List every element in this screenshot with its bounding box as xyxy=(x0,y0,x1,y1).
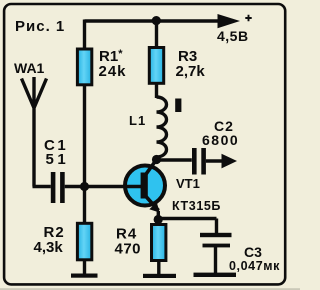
ground R2 xyxy=(71,274,98,278)
transistor VT1 xyxy=(125,166,165,206)
resistor R2 xyxy=(77,223,91,259)
wire collector lead into transistor xyxy=(146,160,157,175)
wire top rail xyxy=(85,19,222,22)
power arrow +4.5V xyxy=(218,14,241,28)
svg-text:Рис. 1: Рис. 1 xyxy=(15,18,65,35)
node base junction xyxy=(80,182,89,191)
ground R4 xyxy=(143,274,176,278)
wire emitter junction to R4 xyxy=(157,220,160,225)
wire C3 to ground xyxy=(214,247,217,273)
svg-text:4,5В: 4,5В xyxy=(217,28,249,44)
wire emitter to junction xyxy=(157,211,160,220)
svg-text:2,7k: 2,7k xyxy=(176,63,206,80)
scan edge shading xyxy=(0,288,300,290)
resistor R1 xyxy=(77,49,91,85)
svg-text:0,047мк: 0,047мк xyxy=(229,259,280,273)
ground C3 xyxy=(194,273,237,277)
svg-text:51: 51 xyxy=(46,151,70,168)
wire base lead xyxy=(85,185,143,188)
wire R4 to ground xyxy=(157,260,160,274)
wire base node to R2 xyxy=(83,187,86,223)
wire R1 bottom lead to base node xyxy=(83,85,86,187)
inductor L1 xyxy=(157,97,167,157)
wire antenna to C1 xyxy=(33,185,51,188)
svg-text:24k: 24k xyxy=(99,63,127,80)
wire L1 bottom to collector node xyxy=(155,156,158,160)
wire C1 to base node xyxy=(65,185,85,188)
wire R3 to L1 xyxy=(155,83,158,98)
svg-text:VT1: VT1 xyxy=(176,176,200,191)
svg-text:КТ315Б: КТ315Б xyxy=(172,199,221,213)
wire R2 to ground xyxy=(83,260,86,275)
svg-text:L1: L1 xyxy=(129,113,146,128)
antenna WA1 xyxy=(22,77,47,187)
wire R1 top lead xyxy=(83,20,86,49)
svg-text:6800: 6800 xyxy=(202,132,239,148)
L1 core bar xyxy=(175,99,181,113)
wire R3 top lead xyxy=(155,21,158,47)
svg-text:470: 470 xyxy=(115,241,142,258)
node collector junction xyxy=(152,155,161,164)
capacitor C1 xyxy=(51,172,56,203)
svg-text:C3: C3 xyxy=(244,244,262,260)
resistor R3 xyxy=(149,48,163,84)
output arrow after C2 xyxy=(206,159,224,162)
node emitter junction xyxy=(154,215,163,224)
transistor base bar xyxy=(141,173,148,199)
capacitor C3 xyxy=(200,233,232,237)
transistor emitter with arrow xyxy=(146,197,159,211)
wire emitter junction to C3 xyxy=(158,219,216,236)
svg-text:4,3k: 4,3k xyxy=(34,239,64,256)
resistor R4 xyxy=(152,225,166,261)
svg-text:WA1: WA1 xyxy=(14,60,45,76)
wire collector node to C2 xyxy=(157,158,192,161)
node junction top (rail to R3) xyxy=(152,16,161,25)
capacitor C2 xyxy=(192,148,197,175)
